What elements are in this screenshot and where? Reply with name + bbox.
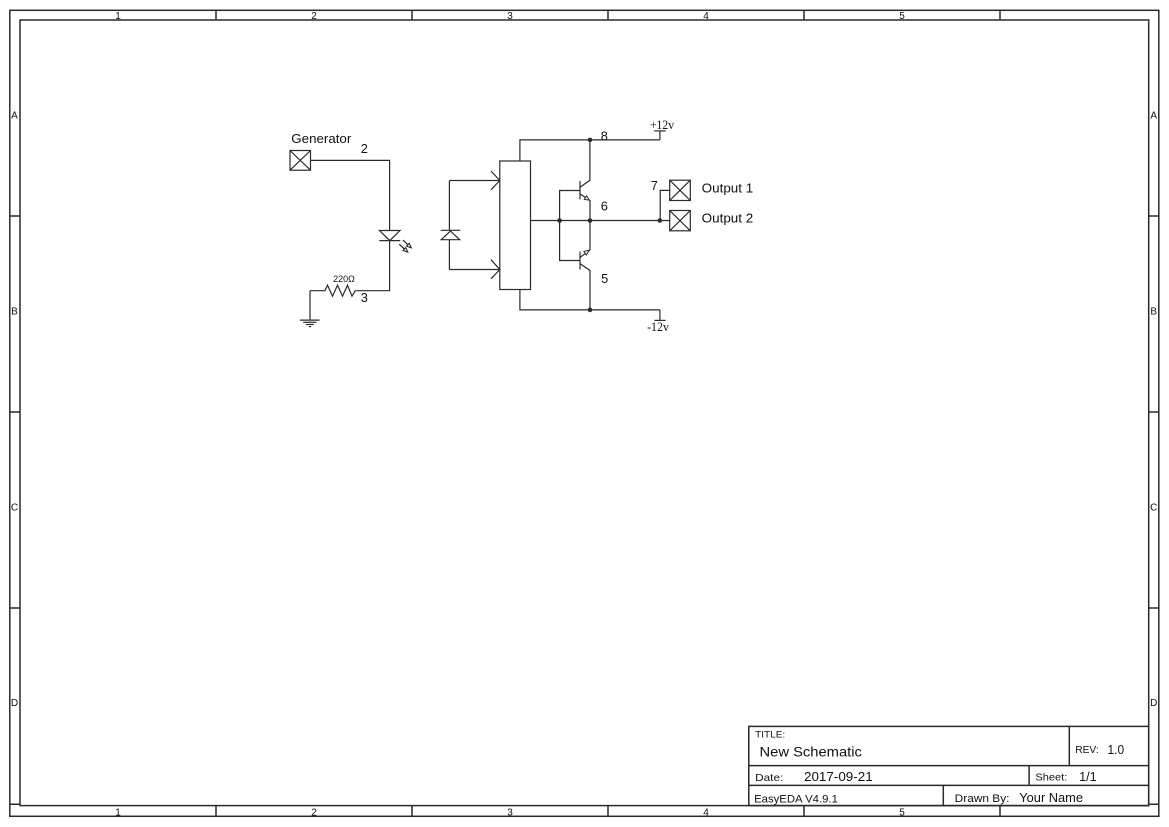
svg-text:A: A: [1150, 111, 1157, 122]
svg-text:5: 5: [899, 808, 905, 819]
transistor Q2 PNP: [580, 221, 590, 310]
svg-text:1: 1: [115, 808, 121, 819]
wire port Output 1 branch: [660, 190, 670, 220]
port Output 2: [670, 211, 754, 231]
svg-text:7: 7: [651, 178, 658, 193]
ground: [300, 320, 320, 327]
optocoupler body U1: [500, 161, 531, 290]
svg-text:5: 5: [601, 271, 608, 286]
wire opto input loop bottom: [449, 269, 499, 271]
wire resistor to ground: [309, 291, 311, 320]
svg-text:B: B: [1150, 307, 1157, 318]
port Output 1: [670, 180, 754, 200]
svg-text:1: 1: [115, 11, 121, 22]
title block: [749, 726, 1149, 805]
junction bottom rail: [588, 308, 593, 313]
LED D1: [379, 231, 411, 253]
power +12v: [650, 118, 675, 140]
svg-text:C: C: [1150, 503, 1157, 514]
opto input arrow bottom: [491, 260, 500, 279]
svg-text:Sheet:: Sheet:: [1035, 772, 1067, 784]
svg-text:-12v: -12v: [647, 320, 670, 334]
svg-text:2: 2: [361, 141, 368, 156]
svg-text:4: 4: [703, 11, 709, 22]
wire base link: [560, 191, 580, 261]
svg-text:3: 3: [507, 11, 513, 22]
svg-text:5: 5: [899, 11, 905, 22]
wire top rail to +12v: [520, 140, 660, 161]
svg-text:2017-09-21: 2017-09-21: [804, 770, 873, 784]
protection diode D2: [441, 230, 461, 239]
svg-text:TITLE:: TITLE:: [755, 730, 785, 741]
junction top rail: [588, 138, 593, 143]
transistor Q1 NPN: [580, 140, 590, 221]
svg-text:1/1: 1/1: [1079, 770, 1097, 784]
junction emitters: [588, 218, 593, 223]
junction output port branch: [658, 218, 663, 223]
wire opto left vertical top: [448, 181, 450, 231]
svg-text:D: D: [1150, 698, 1157, 709]
svg-text:220Ω: 220Ω: [333, 274, 355, 285]
opto input arrow top: [491, 171, 500, 190]
svg-text:2: 2: [311, 808, 317, 819]
svg-text:1.0: 1.0: [1108, 743, 1125, 757]
svg-text:Date:: Date:: [755, 772, 783, 784]
wire bottom rail to -12v: [520, 290, 660, 310]
svg-text:8: 8: [601, 129, 608, 144]
svg-text:6: 6: [601, 199, 608, 214]
svg-text:4: 4: [703, 808, 709, 819]
svg-text:Output 2: Output 2: [702, 211, 754, 226]
svg-text:3: 3: [361, 290, 368, 305]
svg-text:EasyEDA V4.9.1: EasyEDA V4.9.1: [754, 793, 838, 805]
wire LED to resistor: [355, 241, 389, 291]
junction base link: [557, 218, 562, 223]
svg-text:D: D: [11, 698, 18, 709]
port Generator: [290, 131, 352, 170]
svg-text:B: B: [11, 307, 18, 318]
wire opto left vertical bottom: [448, 240, 450, 270]
svg-text:+12v: +12v: [650, 118, 675, 132]
power -12v: [647, 310, 670, 334]
wire generator to LED: [311, 160, 390, 230]
svg-text:Output 1: Output 1: [702, 180, 754, 195]
svg-text:Your Name: Your Name: [1019, 791, 1083, 805]
svg-text:A: A: [11, 111, 18, 122]
svg-text:2: 2: [311, 11, 317, 22]
svg-text:REV:: REV:: [1075, 744, 1099, 756]
wire output node 6: [531, 220, 670, 222]
svg-text:New Schematic: New Schematic: [760, 744, 862, 760]
svg-text:C: C: [11, 503, 18, 514]
resistor R1 220Ω: [310, 274, 355, 296]
svg-text:Drawn By:: Drawn By:: [955, 793, 1010, 805]
wire opto input loop top: [449, 180, 499, 182]
svg-text:3: 3: [507, 808, 513, 819]
svg-text:Generator: Generator: [291, 131, 352, 146]
